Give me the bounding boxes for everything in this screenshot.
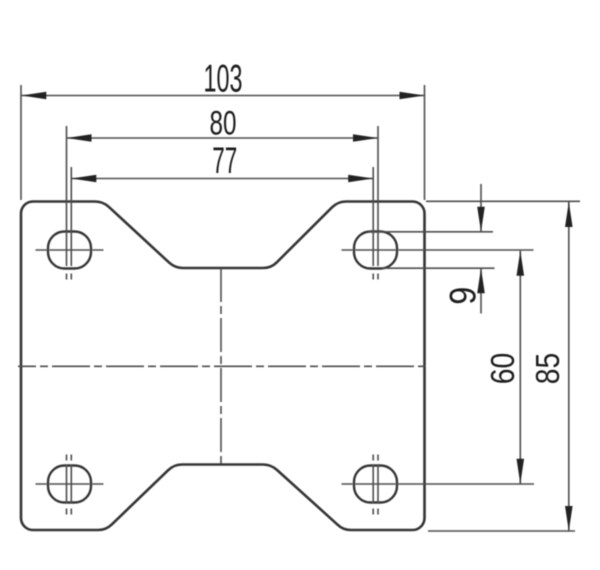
- centre line hole top-right (extends right for dim 60): [342, 249, 534, 251]
- dimension line 60: [519, 251, 521, 484]
- svg-text:103: 103: [204, 58, 243, 101]
- dimension line 103: [21, 95, 424, 97]
- arrowhead 60 bottom: [517, 459, 525, 484]
- extension line hole top tangent (dim 9): [368, 231, 493, 233]
- plate outline: [21, 202, 425, 531]
- centre line hole bottom-right (extends right for dim 60): [342, 483, 535, 485]
- extension line plate top edge right (dim 85): [426, 200, 580, 202]
- arrowhead 80 right: [353, 134, 378, 142]
- vertical centre marks holes top (80/77 extension lines): [66, 126, 68, 280]
- slot hole top-left: [48, 232, 91, 269]
- arrowhead 9 bottom (points up): [477, 268, 485, 293]
- arrowhead 85 top: [565, 202, 573, 227]
- svg-text:80: 80: [210, 105, 237, 143]
- arrowhead 103 right: [400, 92, 425, 100]
- arrowhead 60 top: [517, 251, 525, 276]
- extension line hole bottom tangent (dim 9): [382, 267, 495, 269]
- arrowhead 103 left: [21, 92, 46, 100]
- slot hole bottom-right: [354, 466, 397, 503]
- svg-text:77: 77: [212, 140, 237, 181]
- vertical centre line of plate: [220, 268, 222, 464]
- arrowhead 9 top (points down): [477, 207, 485, 232]
- extension line plate bottom edge right (dim 85): [428, 530, 575, 532]
- svg-text:85: 85: [529, 353, 566, 385]
- svg-text:9: 9: [443, 287, 484, 305]
- arrowhead 85 bottom: [565, 506, 573, 531]
- horizontal centre line of plate: [18, 365, 425, 367]
- dimension line 80: [67, 137, 379, 139]
- arrowhead 77 left: [71, 175, 96, 183]
- extension line right plate edge (dim 103): [424, 85, 426, 200]
- extension line left plate edge (dim 103): [20, 85, 22, 200]
- arrowhead 80 left: [67, 134, 92, 142]
- slot hole top-right: [354, 232, 397, 269]
- centre line hole bottom-left: [36, 483, 104, 485]
- centre line hole top-left: [36, 249, 104, 251]
- svg-text:60: 60: [484, 353, 521, 385]
- vertical centre marks holes bottom: [66, 455, 68, 515]
- slot hole bottom-left: [48, 466, 91, 503]
- arrowhead 77 right: [348, 175, 373, 183]
- dimension line 9 (two outside segments): [480, 184, 482, 314]
- dimension line 77: [71, 178, 373, 180]
- dimension line 85: [568, 202, 570, 531]
